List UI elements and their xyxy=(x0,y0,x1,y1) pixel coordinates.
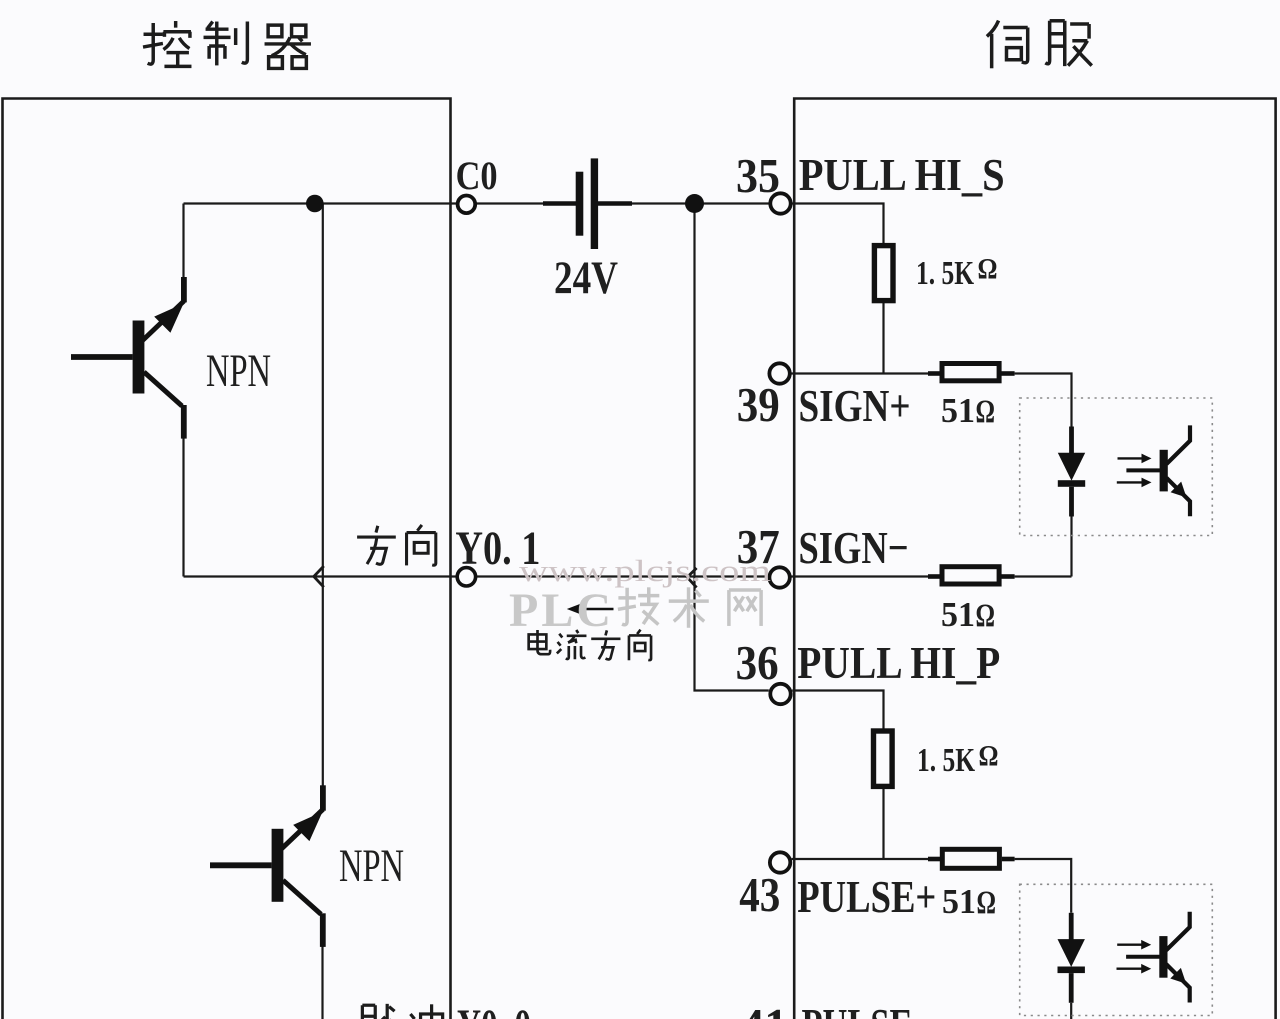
svg-text:SIGN+: SIGN+ xyxy=(799,380,911,431)
optocoupler U1 xyxy=(1058,425,1190,516)
wire 51R2 to led1 bottom xyxy=(1015,575,1072,577)
svg-text:NPN: NPN xyxy=(206,345,271,397)
label maichong (cut at bottom) xyxy=(359,1004,398,1019)
junction dot A xyxy=(306,195,324,213)
svg-text:37: 37 xyxy=(737,519,780,574)
label fangxiang xiang xyxy=(407,525,436,566)
wire pin37 row xyxy=(791,575,928,577)
wire 51R3 to led2 xyxy=(1015,859,1072,913)
wire vertical branch left xyxy=(322,205,324,786)
title qi xyxy=(265,25,311,68)
svg-text:Ω: Ω xyxy=(976,394,996,430)
svg-text:35: 35 xyxy=(736,148,780,203)
wire battery left xyxy=(477,202,544,204)
wire pin36 to R2 xyxy=(792,691,883,729)
svg-text:Ω: Ω xyxy=(976,598,996,634)
svg-text:C0: C0 xyxy=(456,153,498,198)
light arrow 2 xyxy=(1117,967,1144,969)
label fangxiang fang xyxy=(357,526,396,565)
controller box xyxy=(3,99,451,1019)
wire battery to pin35 xyxy=(632,202,769,204)
svg-text:39: 39 xyxy=(737,377,780,432)
svg-text:SIGN−: SIGN− xyxy=(799,522,909,573)
wire R1 to node39 xyxy=(882,303,884,374)
current chevron 2 xyxy=(687,568,696,588)
resistor R2 1.5K xyxy=(874,731,893,786)
battery 24V xyxy=(543,158,632,249)
emitter xyxy=(1167,478,1191,516)
terminal C0 xyxy=(458,196,476,214)
wire Q1 collector xyxy=(182,204,184,278)
svg-text:PULSE: PULSE xyxy=(802,999,913,1019)
optocoupler U2 xyxy=(1058,912,1190,1003)
svg-text:Ω: Ω xyxy=(978,253,998,286)
resistor 51R-1 xyxy=(928,364,1015,381)
LED D2 xyxy=(1069,913,1074,940)
svg-text:51: 51 xyxy=(941,391,975,430)
pin 36 circle xyxy=(770,684,790,704)
wire Q2 emitter down xyxy=(321,946,323,1019)
phototransistor base bar xyxy=(1159,936,1167,978)
wire pin43 row xyxy=(792,858,928,860)
junction dot B xyxy=(685,194,704,213)
phototransistor base lead xyxy=(1126,468,1160,472)
wire C0 horizontal xyxy=(184,202,457,204)
svg-text:1. 5K: 1. 5K xyxy=(916,255,974,292)
wire row Y0.1 left xyxy=(184,575,457,577)
svg-text:24V: 24V xyxy=(554,252,618,304)
wire R2 to node43 xyxy=(882,788,884,859)
pin 35 circle xyxy=(770,193,790,213)
svg-text:PULSE+: PULSE+ xyxy=(797,871,936,922)
transistor Q2 NPN xyxy=(210,785,326,947)
svg-text:Ω: Ω xyxy=(977,885,997,921)
phototransistor base lead xyxy=(1126,955,1160,959)
wire led1 to row37 xyxy=(1070,517,1072,577)
optocoupler U2 dashed box xyxy=(1020,884,1213,1015)
svg-text:www.plcjs.com: www.plcjs.com xyxy=(519,553,771,588)
light arrow 1 xyxy=(1118,457,1144,459)
watermark char shu xyxy=(669,587,709,627)
svg-text:51: 51 xyxy=(942,882,976,921)
title si xyxy=(987,21,1028,69)
svg-text:51: 51 xyxy=(941,595,975,634)
wire row Y0.1 right xyxy=(477,575,769,577)
title zhi xyxy=(204,22,248,66)
light arrow 1 xyxy=(1117,943,1143,945)
wire 51R1 to led1 xyxy=(1015,374,1072,427)
wire led2 bottom xyxy=(1070,1003,1072,1019)
svg-text:PULL HI_P: PULL HI_P xyxy=(797,637,1000,688)
watermark char ji xyxy=(618,587,659,624)
collector xyxy=(1167,425,1191,464)
current chevron 1 xyxy=(314,566,324,587)
emitter xyxy=(1166,964,1190,1002)
wire Q1 emitter down xyxy=(182,438,184,577)
svg-text:36: 36 xyxy=(736,635,779,690)
watermark char wang xyxy=(729,590,761,626)
wire pin39 row xyxy=(791,372,928,374)
servo box xyxy=(794,99,1275,1019)
optocoupler U1 dashed box xyxy=(1020,398,1213,536)
wire vertical branch mid xyxy=(695,205,769,691)
title fu2 xyxy=(1045,21,1091,66)
title kong xyxy=(143,21,191,66)
svg-text:1. 5K: 1. 5K xyxy=(917,742,975,779)
svg-text:PLC: PLC xyxy=(509,584,611,637)
svg-text:Y0. 1: Y0. 1 xyxy=(455,522,540,575)
current direction arrow xyxy=(567,604,614,614)
label dianliu fangxiang xyxy=(529,630,550,654)
svg-text:Y0. 0: Y0. 0 xyxy=(457,1000,531,1019)
svg-text:NPN: NPN xyxy=(339,840,404,892)
LED D1 xyxy=(1069,427,1074,454)
terminal Y0.1 xyxy=(457,568,475,586)
transistor Q1 NPN xyxy=(71,277,187,439)
light arrow 2 xyxy=(1117,481,1144,483)
phototransistor base bar xyxy=(1160,450,1168,492)
pin 43 circle xyxy=(770,852,790,872)
pin 39 circle xyxy=(769,363,789,383)
svg-text:41: 41 xyxy=(741,998,788,1019)
svg-text:PULL HI_S: PULL HI_S xyxy=(799,149,1005,200)
resistor 51R-3 xyxy=(928,849,1015,868)
wire pin35 to R1 xyxy=(792,204,883,244)
collector xyxy=(1166,912,1190,951)
svg-text:Ω: Ω xyxy=(979,740,999,773)
resistor R1 1.5K xyxy=(874,246,893,301)
resistor 51R-2 xyxy=(928,567,1015,584)
svg-text:43: 43 xyxy=(739,867,780,922)
pin 37 circle xyxy=(769,567,789,587)
